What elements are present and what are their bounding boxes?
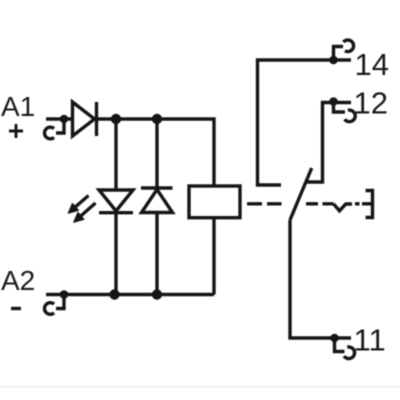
svg-text:11: 11 [354, 323, 386, 358]
clamp terminal 11 [330, 334, 354, 359]
wire A1 terminal to diode D1 [46, 117, 71, 120]
LED indicator [99, 190, 133, 213]
LED emission arrow 2 [74, 203, 96, 222]
mechanical linkage dashes [355, 202, 372, 205]
svg-text:12: 12 [354, 86, 388, 121]
switch moving contact blade [290, 168, 312, 220]
node junction top rail / LED branch [111, 114, 121, 124]
node junction bottom rail / LED branch [109, 289, 119, 299]
mechanical linkage spring detent [334, 204, 353, 211]
clamp terminal 12 [329, 97, 355, 122]
LED emission arrow 1 [68, 196, 88, 214]
svg-text:14: 14 [355, 47, 389, 82]
clamp terminal A1 [44, 115, 68, 139]
clamp terminal A2 [44, 290, 68, 314]
diode D1 (reverse polarity protection) [73, 102, 97, 136]
wire freewheel branch upper [155, 119, 158, 188]
faint separator line at bottom [0, 386, 400, 388]
wire terminal 12 to NC contact [307, 103, 352, 183]
plus sign [9, 124, 23, 138]
wire coil bottom to bottom rail [212, 218, 215, 295]
node junction top rail / freewheel branch [152, 114, 162, 124]
svg-text:A2: A2 [1, 265, 35, 296]
wire terminal 14 to NO contact [258, 60, 352, 185]
wire top rail from D1 to coil, corner down to coil top [97, 119, 215, 186]
svg-text:A1: A1 [1, 91, 35, 122]
mechanical linkage dashed line coil to contact [247, 202, 334, 205]
clamp terminal 14 [329, 40, 353, 64]
wire LED branch upper [114, 119, 117, 190]
wire bottom rail A2 [46, 293, 214, 296]
minus sign [11, 307, 21, 310]
wire common to terminal 11 [290, 220, 351, 338]
freewheeling diode [141, 188, 173, 213]
relay coil K1 [189, 186, 240, 218]
wire freewheel branch lower [155, 213, 158, 295]
node junction bottom rail / freewheel branch [152, 289, 162, 299]
wire LED branch lower [114, 213, 117, 295]
mechanical anchor bracket [366, 191, 373, 218]
